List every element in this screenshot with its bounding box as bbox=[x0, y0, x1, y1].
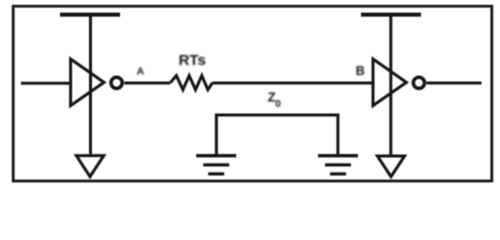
power wire right (vertical through U2) bbox=[389, 16, 392, 155]
power rail bar right (VCC) bbox=[361, 13, 421, 17]
wire resistor to node B bbox=[213, 82, 372, 85]
svg-text:RTs: RTs bbox=[179, 52, 206, 69]
ground wire arrow left bbox=[76, 156, 104, 177]
inverter U2 triangle bbox=[373, 59, 406, 106]
earth ground right bbox=[318, 156, 358, 174]
svg-text:B: B bbox=[356, 64, 365, 78]
inverter U2 bubble bbox=[413, 77, 424, 88]
inverter U1 triangle bbox=[71, 59, 104, 106]
resistor RTs zigzag bbox=[170, 76, 212, 90]
power wire left (vertical through U1) bbox=[89, 16, 92, 154]
output wire from U2 bbox=[427, 82, 482, 85]
svg-text:0: 0 bbox=[275, 99, 281, 110]
inverter U1 bubble bbox=[111, 77, 122, 88]
svg-text:A: A bbox=[137, 66, 145, 78]
transmission line stub wire (bracket) bbox=[216, 115, 338, 154]
earth ground left bbox=[196, 156, 236, 174]
input wire to U1 bbox=[21, 82, 70, 85]
wire A to resistor bbox=[124, 82, 170, 85]
power rail bar left (VCC) bbox=[60, 13, 120, 17]
ground wire arrow right bbox=[377, 156, 404, 177]
